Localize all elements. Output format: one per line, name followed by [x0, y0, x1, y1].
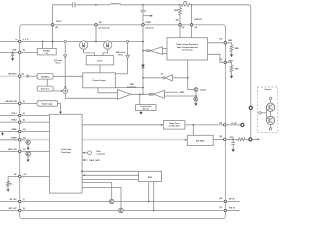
block Control Logic: [83, 73, 116, 88]
block MUX: [139, 171, 162, 181]
pin BP OUT: [10, 199, 25, 203]
wire U6 input VREF: [165, 92, 185, 94]
wire Q5 Q6 join: [270, 111, 272, 116]
inductor L1: [110, 3, 143, 4]
svg-text:Slope Drive: Slope Drive: [41, 88, 50, 90]
svg-text:SW: SW: [99, 22, 102, 24]
terminal LG SD: [226, 123, 244, 126]
svg-text:Isetbias: Isetbias: [200, 89, 206, 92]
wire rail BP OUT: [0, 201, 225, 203]
svg-text:Control Logic: Control Logic: [93, 79, 107, 82]
svg-text:Sense: Sense: [118, 55, 123, 57]
wire blk gate to pin 15: [213, 138, 225, 140]
svg-text:CTRL2: CTRL2: [11, 120, 16, 122]
svg-text:BLK GATE: BLK GATE: [196, 139, 205, 142]
transistor Q1 (rectifier FET): [79, 41, 87, 49]
comparator U5 PWM: [117, 84, 136, 99]
pin RSUB (28): [176, 19, 185, 29]
arrow into flash logic: [59, 112, 62, 114]
diode D1: [141, 65, 144, 68]
svg-text:(11): (11): [24, 174, 27, 176]
svg-text:(23): (23): [55, 27, 58, 29]
wire Q2 gate: [103, 49, 108, 55]
node VOUT junction: [142, 4, 144, 6]
ground Iset: [194, 103, 197, 106]
pin BKLIT EN: [8, 149, 26, 153]
svg-text:Flash logic: Flash logic: [61, 152, 70, 154]
svg-text:Charge Pump: Charge Pump: [169, 123, 179, 125]
wire Driver to Control Logic: [99, 65, 101, 73]
svg-text:RAMP: RAMP: [12, 128, 18, 131]
wire MUX to rail 1: [148, 182, 150, 203]
pin AF: [14, 173, 26, 178]
node pwm run: [142, 93, 144, 95]
svg-text:(19, 20, 26, 27): (19, 20, 26, 27): [99, 27, 110, 29]
block Charge Pump: [163, 121, 185, 130]
svg-text:VREF: VREF: [180, 92, 185, 94]
svg-text:RSUB: RSUB: [174, 10, 178, 12]
wire U2 inputs: [163, 49, 168, 54]
transistor Q3: [26, 140, 31, 150]
svg-text:NBN: NBN: [228, 40, 232, 42]
resistor RREF: [225, 62, 238, 78]
IC body outline: [20, 25, 226, 219]
wire VCC rail to right edge: [192, 5, 251, 106]
arrow current sense 1: [64, 55, 67, 58]
pin 14 BP IN: [219, 197, 235, 203]
wire reg box bottom branch: [187, 60, 194, 90]
svg-text:Current Limit: Current Limit: [182, 49, 193, 52]
block BLK GATE: [187, 135, 213, 145]
wire VDD to Int Reg: [0, 51, 37, 53]
pin SW: [95, 22, 110, 29]
svg-text:Driver: Driver: [97, 60, 102, 62]
node inv2 output: [142, 50, 144, 52]
current source Iset bias: [194, 88, 206, 92]
wire summer to comparator: [65, 93, 117, 98]
svg-text:Flash: Flash: [96, 151, 100, 153]
wire INE IN stub: [227, 210, 240, 212]
node current sense 2 tap: [115, 40, 128, 73]
block Control and Flash logic: [49, 114, 82, 193]
resistor RSUB: [174, 5, 181, 25]
capacitor C2 (output): [141, 5, 146, 25]
block Compensation Network: [136, 105, 156, 111]
terminal Q5 top: [269, 97, 271, 103]
svg-text:Sense: Sense: [56, 63, 61, 65]
svg-text:(13): (13): [23, 149, 26, 151]
wire MUX to flash logic: [83, 174, 139, 176]
buffer U4: [27, 75, 30, 78]
label Iq current sense: [54, 59, 63, 64]
wire BP IN stub: [227, 201, 240, 203]
wire U6 input lower: [165, 95, 196, 97]
transistor Q5: [266, 103, 274, 111]
svg-text:RAF: RAF: [10, 183, 13, 186]
label switch current sense: [116, 51, 126, 57]
svg-text:(28): (28): [176, 19, 179, 21]
ground VDD cap: [11, 58, 14, 61]
svg-text:(16): (16): [219, 122, 222, 124]
wire osc to control logic: [53, 75, 83, 77]
wire reg box to pin 17: [208, 42, 226, 44]
wire RSUB pin to reg box: [179, 25, 181, 38]
resistor RBLK: [226, 138, 249, 141]
wire BP pin to buffer: [0, 75, 27, 77]
wire MUX to rail 2: [153, 182, 155, 212]
wire charge pump to blk gate: [192, 125, 194, 135]
pin 15 BLK: [219, 136, 234, 141]
ground compensation: [139, 111, 142, 115]
summer S1: [63, 89, 68, 94]
resistor RVCC: [181, 2, 190, 7]
wire battery input rail: [0, 41, 143, 43]
pin USB OUT: [190, 19, 203, 29]
svg-text:OSC(8PLL): OSC(8PLL): [41, 76, 50, 78]
terminal base: [259, 107, 267, 120]
wire enable to flash logic: [58, 103, 61, 111]
pin PGND: [142, 22, 154, 29]
ground RAMP stub: [1, 132, 4, 136]
svg-text:BLK: BLK: [230, 137, 234, 139]
svg-text:BOOT: BOOT: [56, 21, 62, 23]
wire flash logic to MUX top: [81, 170, 138, 172]
pin RAMP: [12, 128, 26, 133]
block OSC PLL: [37, 74, 53, 80]
wire control logic to comparator: [98, 88, 117, 93]
svg-text:AF: AF: [14, 173, 16, 176]
svg-text:RREF: RREF: [235, 69, 239, 71]
svg-text:(17): (17): [219, 207, 222, 209]
svg-text:PGND: PGND: [146, 22, 152, 24]
transistor Q4: [26, 151, 31, 162]
inverter U6: [149, 90, 165, 98]
wire slope to summer: [53, 90, 63, 92]
svg-text:(17): (17): [219, 38, 222, 40]
stub flash comparator: [83, 151, 106, 156]
wire flash logic to MUX: [82, 178, 139, 180]
wire reg box to pin 9: [208, 54, 226, 62]
svg-text:Output Voltage Regulation,: Output Voltage Regulation,: [176, 43, 199, 46]
svg-text:In: In: [16, 39, 19, 41]
wire CTRL1: [0, 115, 49, 117]
wire BOOT pin to bootstrap cap: [53, 5, 73, 25]
pin IN: [16, 39, 29, 43]
wire VOUT internal vertical: [142, 25, 144, 95]
wire USB OUT pin to reg box: [191, 25, 193, 38]
svg-text:USB OUT: USB OUT: [194, 19, 203, 21]
svg-text:Optional: Optional: [264, 88, 271, 91]
svg-text:Slope Compensation and: Slope Compensation and: [177, 46, 198, 49]
ground C4: [232, 149, 235, 152]
svg-text:(1, 2, 3): (1, 2, 3): [23, 39, 29, 41]
transistor Q2 (switch FET): [104, 41, 112, 49]
svg-text:(10): (10): [23, 129, 26, 131]
pin BOOT: [51, 21, 62, 29]
node SW top junction: [95, 4, 97, 6]
wire USB OUT branch: [191, 5, 193, 25]
wire RAMP: [0, 131, 49, 133]
wire comparator output: [131, 93, 149, 95]
svg-text:BP=VOUT: BP=VOUT: [9, 74, 18, 76]
pin SRC OUT: [9, 208, 26, 212]
block Enable Logic: [37, 101, 58, 107]
pin CTRL1: [11, 113, 25, 117]
pin 16 LG SD: [219, 122, 237, 126]
wire CTRL2: [0, 121, 49, 123]
pin 17 INE IN: [219, 207, 235, 212]
transistor T2: [119, 208, 124, 213]
resistor RNBN: [225, 43, 238, 57]
wire STRB light to BLK gate: [30, 139, 187, 141]
wire comparator to compensation: [139, 94, 141, 104]
transistor T1: [109, 199, 114, 204]
block Int Reg: [37, 48, 56, 55]
svg-text:(25, 26, 27): (25, 26, 27): [146, 27, 155, 29]
node rail to int-reg: [42, 41, 44, 49]
capacitor C4 BLK: [231, 139, 235, 149]
block Output Voltage Regulation: [167, 38, 208, 60]
wire VOUT node to RVCC: [143, 4, 180, 6]
svg-text:BP_IN: BP_IN: [229, 199, 235, 201]
terminal Q6 bottom: [269, 125, 271, 130]
node SW internal: [95, 25, 97, 43]
resistor R AF: [7, 176, 14, 191]
block Slope Drive: [37, 86, 53, 91]
node logic tap: [115, 87, 144, 89]
svg-text:SRC_OUT: SRC_OUT: [9, 208, 18, 210]
svg-text:CTRL1: CTRL1: [11, 113, 16, 115]
svg-text:Control and: Control and: [61, 148, 71, 151]
pin CTRL2: [11, 120, 25, 124]
block Driver: [86, 56, 114, 65]
wire VOUT output stub: [143, 15, 152, 17]
node RVCC right: [191, 4, 193, 6]
svg-text:BKLIT_EN: BKLIT_EN: [8, 149, 17, 151]
wire AF: [8, 175, 49, 177]
inverter U2: [143, 47, 163, 55]
wire rail SRC OUT: [0, 210, 225, 212]
wire BKLIGHT pin to enable: [0, 102, 37, 104]
wire charge pump input: [82, 124, 163, 126]
pin 9 VREF: [220, 59, 233, 64]
node RVCC left: [179, 4, 181, 6]
stub TxBLK GATE: [83, 159, 100, 162]
wire SW node to inductor: [96, 4, 110, 6]
pin BP VOUT: [9, 73, 25, 78]
inverter U3: [143, 73, 187, 81]
box Optional (dashed): [258, 87, 278, 132]
wire STRB: [0, 139, 26, 141]
svg-text:BP_OUT: BP_OUT: [10, 199, 18, 201]
svg-text:INT. REG.: INT. REG.: [43, 50, 51, 52]
wire charge pump to pin 16: [185, 124, 225, 126]
wire osc to slope: [46, 79, 48, 86]
terminal VCC tap: [249, 106, 252, 109]
svg-text:PWM: PWM: [130, 84, 135, 86]
terminal BLK: [249, 138, 260, 141]
wire Q1 gate: [84, 49, 95, 55]
wire VCC vertical lower: [250, 109, 252, 137]
svg-text:RNBN: RNBN: [235, 48, 239, 50]
wire T1 gate: [82, 183, 112, 199]
pin STRB: [11, 136, 26, 141]
pin VDD: [12, 49, 25, 54]
arrow current sense 2: [126, 55, 129, 58]
wire BOOT internal: [52, 25, 54, 49]
svg-text:(15): (15): [219, 136, 222, 138]
pin BKLIGHT EN: [6, 101, 25, 105]
svg-text:INE_IN: INE_IN: [229, 208, 235, 210]
transistor Q6: [266, 116, 274, 124]
node current sense 1 tap: [64, 40, 66, 88]
capacitor C3 (VDD bypass): [11, 52, 14, 59]
wire T2 gate: [82, 187, 121, 208]
svg-text:STRB1: STRB1: [11, 137, 17, 139]
node inv1 output: [142, 77, 144, 79]
wire Iset to ground: [194, 92, 198, 104]
capacitor C1 (bootstrap): [73, 2, 96, 7]
wire buffer to osc: [30, 75, 38, 77]
wire BKLIT EN: [0, 150, 49, 152]
svg-text:BKLIGHT_EN: BKLIGHT_EN: [6, 101, 18, 103]
pin 17 NBN: [219, 38, 233, 44]
svg-text:Enable Logic: Enable Logic: [42, 103, 53, 105]
svg-text:RVCC: RVCC: [184, 2, 188, 4]
svg-text:VDD: VDD: [12, 50, 16, 52]
